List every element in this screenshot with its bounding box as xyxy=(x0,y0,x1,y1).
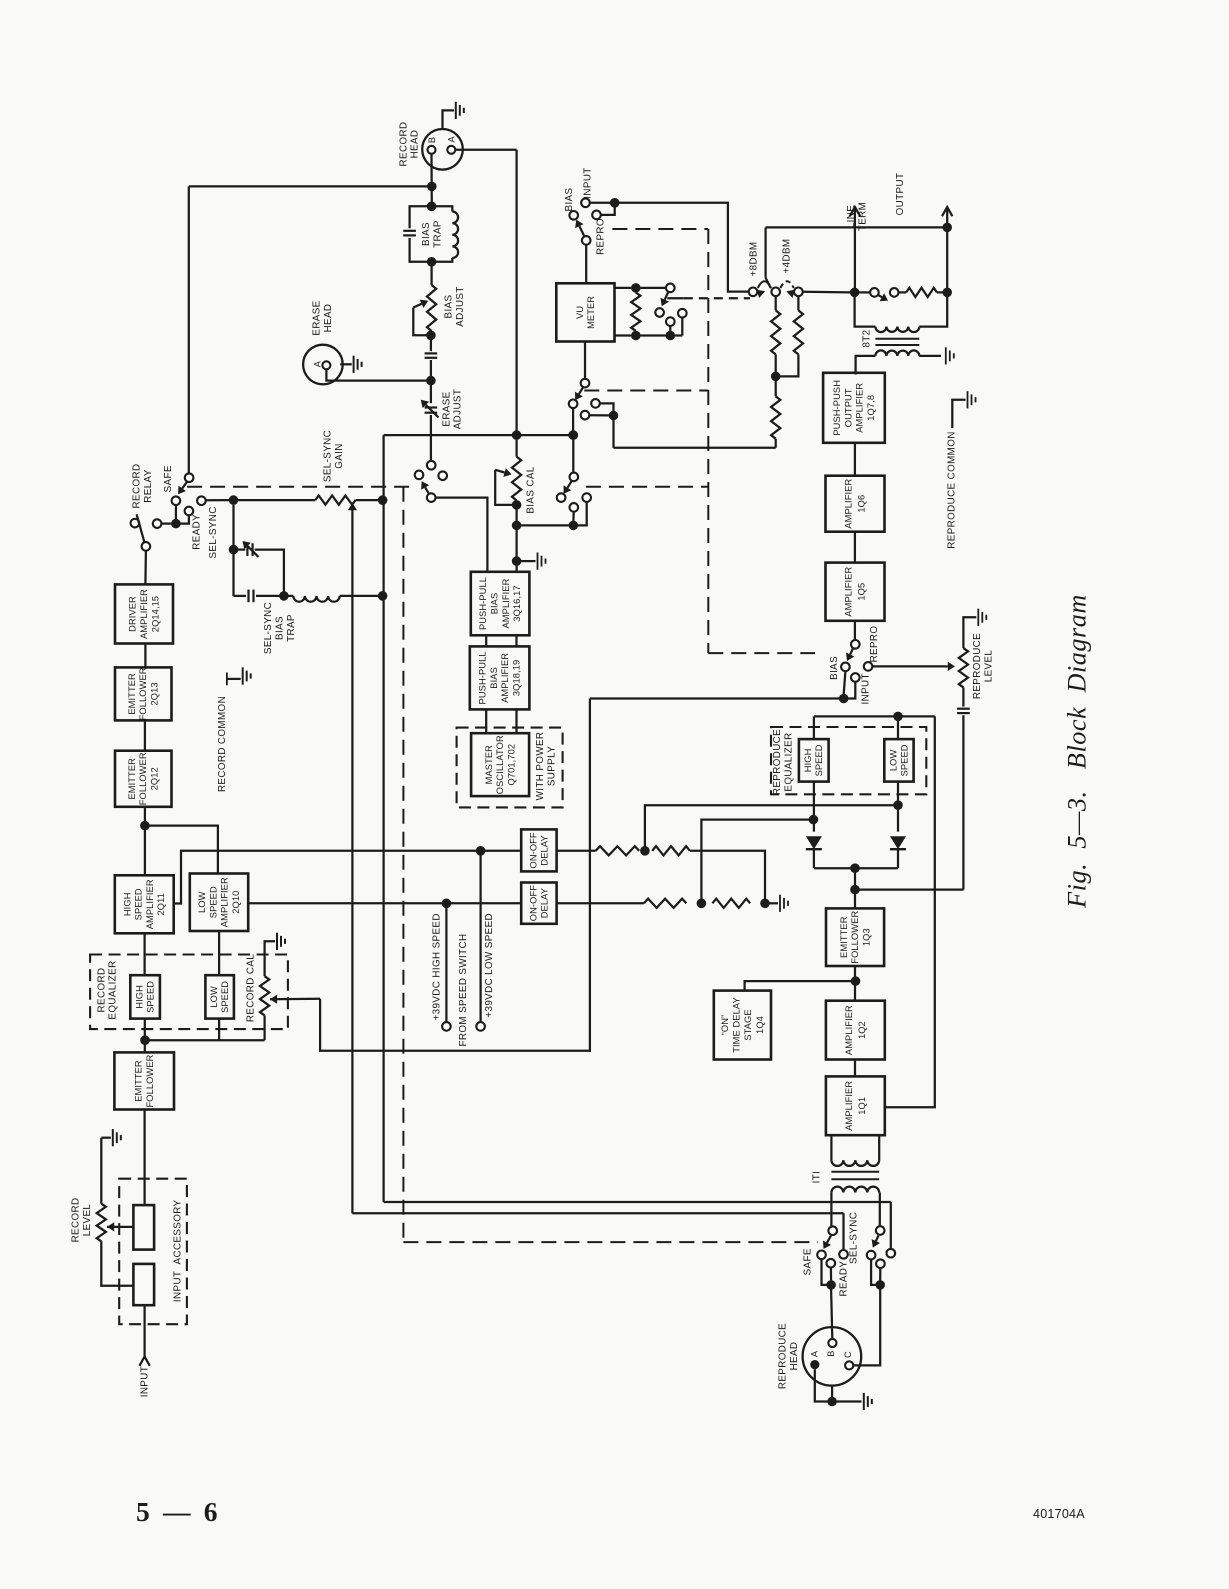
svg-text:RECORD COMMON: RECORD COMMON xyxy=(217,696,228,792)
svg-text:REPRODUCE: REPRODUCE xyxy=(778,1323,789,1389)
svg-text:SPEED: SPEED xyxy=(208,886,218,918)
svg-text:ON-OFF: ON-OFF xyxy=(528,885,538,921)
svg-text:SEL-SYNC: SEL-SYNC xyxy=(323,430,334,482)
svg-text:AMPLIFIER: AMPLIFIER xyxy=(139,589,149,639)
svg-text:PUSH-PULL: PUSH-PULL xyxy=(478,651,488,704)
svg-text:METER: METER xyxy=(586,296,596,329)
svg-text:3Q16,17: 3Q16,17 xyxy=(512,585,522,621)
svg-text:SAFE: SAFE xyxy=(803,1248,814,1275)
svg-text:REPRODUCE: REPRODUCE xyxy=(772,729,783,795)
svg-text:+39VDC LOW SPEED: +39VDC LOW SPEED xyxy=(484,913,495,1018)
svg-text:SEL-SYNC: SEL-SYNC xyxy=(848,1212,859,1264)
svg-text:1Q6: 1Q6 xyxy=(857,495,867,513)
svg-text:AMPLIFIER: AMPLIFIER xyxy=(855,383,865,433)
svg-text:AMPLIFIER: AMPLIFIER xyxy=(844,567,854,617)
svg-text:GAIN: GAIN xyxy=(334,443,345,469)
svg-text:HEAD: HEAD xyxy=(789,1342,800,1371)
svg-text:ERASE: ERASE xyxy=(441,391,452,426)
svg-text:SAFE: SAFE xyxy=(163,465,174,492)
svg-text:AMPLIFIER: AMPLIFIER xyxy=(844,479,854,529)
svg-text:READY: READY xyxy=(838,1261,849,1297)
svg-text:1Q5: 1Q5 xyxy=(857,583,867,601)
svg-text:5 — 6: 5 — 6 xyxy=(136,1496,221,1527)
svg-text:DRIVER: DRIVER xyxy=(128,596,138,632)
svg-text:STAGE: STAGE xyxy=(743,1009,753,1040)
svg-text:SUPPLY: SUPPLY xyxy=(546,746,557,786)
svg-text:SPEED: SPEED xyxy=(146,981,156,1013)
svg-text:BIAS: BIAS xyxy=(490,593,500,615)
svg-text:SEL-SYNC: SEL-SYNC xyxy=(263,602,274,654)
svg-text:B: B xyxy=(427,137,437,144)
svg-text:BIAS: BIAS xyxy=(829,656,840,680)
svg-text:Q701,702: Q701,702 xyxy=(506,744,516,786)
svg-text:B: B xyxy=(826,1350,836,1357)
svg-text:AMPLIFIER: AMPLIFIER xyxy=(844,1081,854,1131)
svg-text:+39VDC HIGH SPEED: +39VDC HIGH SPEED xyxy=(432,913,443,1020)
svg-text:OSCILLATOR: OSCILLATOR xyxy=(495,735,505,794)
svg-text:2Q11: 2Q11 xyxy=(156,893,166,915)
svg-text:AMPLIFIER: AMPLIFIER xyxy=(500,653,510,703)
svg-text:SPEED: SPEED xyxy=(900,744,910,776)
svg-text:LOW: LOW xyxy=(889,750,899,772)
svg-text:REPRODUCE: REPRODUCE xyxy=(972,633,983,699)
svg-text:OUTPUT: OUTPUT xyxy=(895,173,906,216)
svg-text:REPRO: REPRO xyxy=(869,626,880,663)
svg-text:BIAS: BIAS xyxy=(421,222,432,246)
svg-text:SPEED: SPEED xyxy=(134,888,144,920)
svg-text:ADJUST: ADJUST xyxy=(453,389,464,430)
svg-text:BIAS: BIAS xyxy=(489,667,499,689)
svg-text:EMITTER: EMITTER xyxy=(839,916,849,958)
svg-text:RECORD: RECORD xyxy=(398,122,409,167)
svg-text:BIAS: BIAS xyxy=(444,294,455,318)
svg-text:RECORD: RECORD xyxy=(132,464,143,509)
svg-text:READY: READY xyxy=(192,514,203,550)
svg-text:WITH POWER: WITH POWER xyxy=(535,732,546,801)
svg-text:ADJUST: ADJUST xyxy=(455,286,466,327)
svg-text:LINE: LINE xyxy=(846,205,857,228)
svg-text:INPUT: INPUT xyxy=(139,1366,150,1397)
svg-text:LOW: LOW xyxy=(209,986,219,1008)
svg-text:BIAS CAL: BIAS CAL xyxy=(526,466,537,513)
svg-text:FROM SPEED SWITCH: FROM SPEED SWITCH xyxy=(458,934,469,1047)
svg-text:FOLLOWER: FOLLOWER xyxy=(145,1054,155,1107)
svg-text:SPEED: SPEED xyxy=(220,981,230,1013)
svg-text:LOW: LOW xyxy=(197,891,207,913)
svg-text:A: A xyxy=(447,135,457,142)
svg-text:DELAY: DELAY xyxy=(539,835,549,865)
svg-text:HIGH: HIGH xyxy=(122,892,132,916)
svg-text:FOLLOWER: FOLLOWER xyxy=(850,911,860,964)
svg-text:BIAS: BIAS xyxy=(274,616,285,640)
svg-text:1Q3: 1Q3 xyxy=(861,928,871,946)
svg-text:A: A xyxy=(810,1350,820,1357)
svg-text:EQUALIZER: EQUALIZER xyxy=(108,960,119,1019)
svg-text:EMITTER: EMITTER xyxy=(127,673,137,715)
svg-text:BIAS: BIAS xyxy=(564,187,575,211)
svg-text:PUSH-PULL: PUSH-PULL xyxy=(478,577,488,630)
svg-text:SPEED: SPEED xyxy=(814,744,824,776)
svg-text:ERASE: ERASE xyxy=(312,300,323,335)
svg-text:2Q10: 2Q10 xyxy=(231,891,241,914)
svg-text:OUTPUT: OUTPUT xyxy=(843,388,853,427)
svg-text:2Q12: 2Q12 xyxy=(150,767,160,790)
svg-text:MASTER: MASTER xyxy=(484,745,494,785)
svg-text:DELAY: DELAY xyxy=(539,888,549,918)
svg-text:LEVEL: LEVEL xyxy=(82,1204,93,1237)
svg-text:RECORD: RECORD xyxy=(96,968,107,1013)
svg-text:LEVEL: LEVEL xyxy=(983,650,994,683)
svg-text:ON-OFF: ON-OFF xyxy=(528,832,538,868)
svg-text:PUSH-PUSH: PUSH-PUSH xyxy=(832,380,842,436)
svg-text:1Q2: 1Q2 xyxy=(857,1021,867,1039)
svg-text:+4DBM: +4DBM xyxy=(782,239,793,274)
svg-text:A: A xyxy=(313,360,323,367)
svg-text:REPRODUCE COMMON: REPRODUCE COMMON xyxy=(947,431,958,548)
svg-text:Fig. 5—3. Block Diagram: Fig. 5—3. Block Diagram xyxy=(1063,594,1092,909)
svg-text:3Q18,19: 3Q18,19 xyxy=(512,660,522,696)
svg-text:2Q14,15: 2Q14,15 xyxy=(150,596,160,632)
svg-text:AMPLIFIER: AMPLIFIER xyxy=(501,578,511,628)
svg-text:AMPLIFIER: AMPLIFIER xyxy=(145,879,155,929)
svg-text:RELAY: RELAY xyxy=(143,469,154,502)
svg-text:AMPLIFIER: AMPLIFIER xyxy=(844,1005,854,1055)
svg-text:INPUT: INPUT xyxy=(861,673,872,704)
svg-text:FOLLOWER: FOLLOWER xyxy=(138,667,148,720)
svg-text:TRAP: TRAP xyxy=(286,614,297,642)
svg-text:TIME DELAY: TIME DELAY xyxy=(732,997,742,1053)
svg-text:FOLLOWER: FOLLOWER xyxy=(138,752,148,805)
svg-text:AMPLIFIER: AMPLIFIER xyxy=(220,877,230,927)
svg-text:HEAD: HEAD xyxy=(323,304,334,333)
svg-text:REPRO: REPRO xyxy=(596,218,607,255)
svg-text:“ON”: “ON” xyxy=(720,1015,730,1036)
svg-text:EMITTER: EMITTER xyxy=(127,758,137,800)
svg-text:VU: VU xyxy=(575,306,585,319)
svg-text:ITI: ITI xyxy=(812,1171,823,1184)
svg-text:HIGH: HIGH xyxy=(803,749,813,773)
svg-text:RECORD CAL: RECORD CAL xyxy=(245,954,256,1022)
svg-text:SEL-SYNC: SEL-SYNC xyxy=(208,506,219,558)
svg-text:RECORD: RECORD xyxy=(71,1198,82,1243)
svg-text:INPUT: INPUT xyxy=(582,167,593,198)
svg-text:1Q4: 1Q4 xyxy=(755,1016,765,1034)
svg-text:EMITTER: EMITTER xyxy=(134,1060,144,1102)
svg-text:TERM: TERM xyxy=(857,202,868,231)
svg-text:401704A: 401704A xyxy=(1033,1507,1085,1521)
svg-text:C: C xyxy=(843,1351,853,1358)
svg-text:INPUT ACCESSORY: INPUT ACCESSORY xyxy=(172,1199,183,1302)
svg-text:TRAP: TRAP xyxy=(433,220,444,248)
svg-text:HIGH: HIGH xyxy=(135,985,145,1009)
svg-text:1Q7,8: 1Q7,8 xyxy=(866,395,876,421)
svg-text:8T2: 8T2 xyxy=(861,329,872,347)
svg-text:HEAD: HEAD xyxy=(410,130,421,159)
svg-text:1Q1: 1Q1 xyxy=(857,1097,867,1115)
svg-text:EQUALIZER: EQUALIZER xyxy=(783,732,794,791)
svg-text:+8DBM: +8DBM xyxy=(749,242,760,277)
svg-text:2Q13: 2Q13 xyxy=(150,682,160,705)
